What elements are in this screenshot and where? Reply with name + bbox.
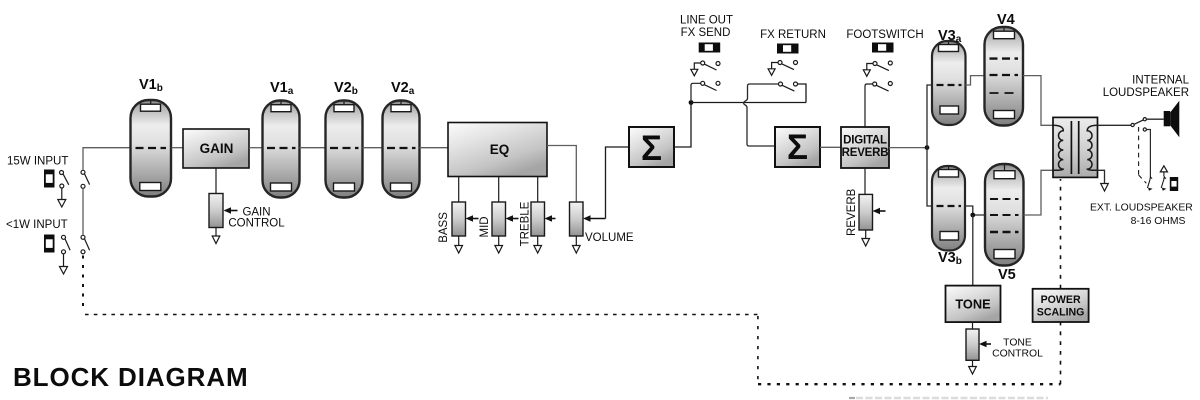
wire V1a to V2b: [300, 147, 327, 149]
tube V1b: [131, 100, 172, 197]
ground below GAIN pot: [212, 228, 220, 244]
wire tone tap to TONE block: [972, 215, 974, 286]
wire secondary to ground: [1098, 170, 1105, 183]
node send junction: [689, 100, 694, 105]
wire sum2 to digital reverb: [820, 146, 841, 148]
switch SW4a (return tip): [778, 61, 798, 70]
ground below BASS: [455, 236, 463, 253]
pot REVERB: [859, 194, 873, 230]
ground below TREBLE: [534, 236, 542, 253]
wire reverb block to pot: [864, 168, 866, 194]
pot GAIN CONTROL: [209, 194, 223, 228]
wire VOLUME wiper to sum1: [606, 147, 630, 219]
switch SW3a (send tip): [701, 61, 720, 70]
dotted riser to transformer: [1060, 179, 1062, 289]
block POWER SCALING: [1033, 289, 1089, 322]
wire footswitch to reverb: [865, 84, 873, 127]
wire secondary to speaker switch: [1098, 124, 1131, 126]
jack J3 (fx send, horizontal): [699, 43, 721, 53]
REVERB wiper arrow: [873, 208, 886, 215]
jack J5 (footswitch, horizontal): [872, 43, 894, 53]
wire EQ to MID pot: [498, 177, 500, 203]
wire V1b to GAIN: [172, 147, 184, 149]
wire input riser: [83, 148, 130, 236]
node phase splitter junction: [925, 145, 930, 150]
wire ext speaker drop: [1146, 130, 1150, 178]
svg-text:DIGITAL: DIGITAL: [843, 135, 887, 147]
svg-text:SCALING: SCALING: [1037, 307, 1085, 319]
wire return loop corner: [798, 84, 807, 103]
wire junction to V3b: [927, 148, 932, 206]
switch SW2a (<1W shunt): [62, 235, 71, 254]
dotted riser to power scaling: [1060, 323, 1062, 385]
ground below TONE pot: [969, 360, 977, 374]
svg-text:Σ: Σ: [787, 128, 808, 167]
wire V3b to V5: [965, 206, 985, 215]
switch SW2b (<1W series): [81, 235, 90, 254]
svg-text:FOOTSWITCH: FOOTSWITCH: [846, 29, 923, 41]
wire EQ to BASS pot: [458, 177, 460, 203]
ground stub SW3a: [691, 63, 701, 76]
tube V3b: [932, 166, 965, 251]
jack J4 (fx return, horizontal): [777, 44, 799, 54]
TONE wiper arrow: [979, 341, 991, 348]
wire switch to internal speaker: [1146, 118, 1163, 120]
svg-text:V5: V5: [998, 267, 1016, 283]
summing block U-sum1: [629, 127, 674, 168]
svg-text:TONE: TONE: [955, 297, 991, 312]
summing block U-sum2: [775, 127, 820, 167]
wire GAIN to pot: [215, 168, 217, 194]
svg-text:MID: MID: [479, 216, 491, 237]
dotted run to power scaling: [758, 383, 1061, 385]
wire EQ to TREBLE pot: [537, 177, 539, 203]
wire V2b to V2a: [363, 147, 384, 149]
svg-text:INTERNAL: INTERNAL: [1132, 75, 1189, 87]
wire EQ out to VOLUME pot: [547, 146, 576, 203]
svg-text:GAIN: GAIN: [200, 141, 234, 156]
svg-text:CONTROL: CONTROL: [992, 349, 1043, 360]
svg-text:LINE OUT: LINE OUT: [680, 15, 733, 27]
jack J6 (ext loudspeaker): [1170, 177, 1178, 191]
jack J2 (<1W input): [44, 235, 55, 253]
jack J1 (15W input): [44, 170, 55, 188]
block TONE: [946, 286, 1001, 323]
pot VOLUME: [570, 202, 584, 236]
node tone tap: [970, 213, 975, 218]
svg-text:LOUDSPEAKER: LOUDSPEAKER: [1103, 87, 1189, 99]
svg-text:EXT. LOUDSPEAKER: EXT. LOUDSPEAKER: [1090, 203, 1193, 214]
tube V4: [985, 27, 1024, 126]
tube V1a: [263, 101, 300, 198]
TREBLE wiper arrow: [545, 215, 556, 222]
ground below SW2a: [60, 254, 68, 274]
block EQ: [448, 123, 547, 177]
pot MID: [492, 202, 506, 236]
svg-text:TREBLE: TREBLE: [520, 201, 532, 246]
wire sum1 out riser: [674, 103, 691, 148]
dashed run to fx area: [85, 314, 758, 316]
BASS wiper arrow: [466, 215, 479, 222]
dashed drop at fx area: [757, 316, 759, 384]
block GAIN: [183, 129, 249, 168]
svg-text:FX RETURN: FX RETURN: [760, 29, 826, 41]
transformer T1: [1053, 117, 1098, 177]
power scaling link (dotted, from <1W input): [83, 179, 1061, 384]
ground below REVERB pot: [862, 230, 870, 246]
switch SW8 with up arrow: [1160, 166, 1167, 191]
wire V3a to V4: [966, 76, 985, 85]
switch SW1a (15W shunt): [60, 171, 69, 189]
wire return drop (jogs over send bus): [744, 84, 779, 146]
wire send bus: [691, 102, 806, 104]
ground stub SW5a: [863, 64, 873, 77]
ground below SW1a: [58, 188, 66, 207]
svg-text:15W INPUT: 15W INPUT: [7, 156, 68, 168]
speaker LS1 (internal): [1164, 101, 1180, 138]
svg-text:Σ: Σ: [641, 129, 662, 168]
VOLUME wiper arrow: [583, 215, 606, 222]
svg-text:TONE: TONE: [1003, 338, 1032, 349]
switch SW3b (send shunt): [701, 81, 720, 90]
ground below VOLUME: [573, 236, 581, 253]
wire TONE to pot: [972, 322, 974, 329]
MID wiper arrow: [506, 215, 519, 222]
pot TREBLE: [531, 202, 545, 236]
dotted drop from input switch: [82, 256, 84, 313]
svg-text:POWER: POWER: [1041, 294, 1081, 306]
scan artifact line: [849, 397, 855, 399]
svg-text:REVERB: REVERB: [846, 188, 858, 236]
ground below MID: [495, 236, 503, 253]
wire junction to V3a: [927, 85, 932, 148]
tube V5: [985, 164, 1024, 266]
switch SW7 lever: [1147, 176, 1152, 191]
svg-text:BASS: BASS: [438, 212, 450, 243]
switch SW5a (footswitch tip): [873, 61, 892, 71]
wire GAIN to V1a: [249, 147, 263, 149]
svg-text:V4: V4: [997, 12, 1015, 28]
ground transformer secondary: [1101, 184, 1109, 192]
ground stub SW4a: [768, 63, 778, 76]
switch SW5b (footswitch shunt): [873, 82, 893, 92]
pot BASS: [452, 202, 466, 236]
linkage (dashed): [1139, 127, 1147, 183]
wire V5 to transformer: [1024, 170, 1054, 215]
tube V3a: [932, 41, 966, 125]
tube V2b: [326, 101, 363, 198]
svg-text:EQ: EQ: [490, 142, 510, 157]
pot TONE CONTROL: [966, 329, 979, 360]
svg-text:REVERB: REVERB: [842, 147, 889, 159]
wire SW3b to junction: [691, 83, 701, 100]
svg-text:VOLUME: VOLUME: [585, 232, 634, 244]
tube V2a: [383, 101, 420, 198]
block DIGITAL REVERB: [841, 127, 889, 168]
wire reverb out: [889, 147, 927, 149]
svg-text:FX SEND: FX SEND: [681, 27, 731, 39]
svg-text:CONTROL: CONTROL: [228, 218, 285, 230]
switch SW7 contact (ext speaker): [1143, 128, 1146, 131]
wire V4 to transformer: [1023, 76, 1053, 126]
svg-text:8-16 OHMS: 8-16 OHMS: [1131, 216, 1186, 227]
svg-text:<1W INPUT: <1W INPUT: [6, 219, 68, 231]
switch SW6 (internal speaker select): [1131, 118, 1146, 127]
switch SW4b (return shunt): [779, 82, 798, 91]
switch SW1b (15W series, on main line): [81, 170, 90, 188]
svg-text:BLOCK DIAGRAM: BLOCK DIAGRAM: [13, 362, 249, 392]
wire V2a to EQ: [420, 147, 449, 149]
wiper arrow: [224, 207, 238, 214]
